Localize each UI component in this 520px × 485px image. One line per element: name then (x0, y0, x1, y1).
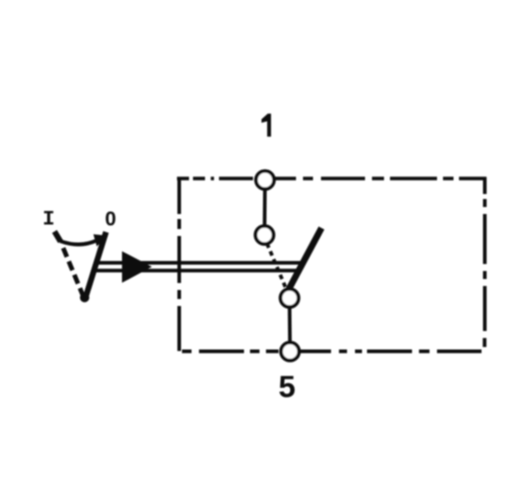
wire: terminal 1 to fixed contact (263, 180, 267, 235)
wire: movable contact pivot to terminal 5 (288, 298, 292, 352)
rocker actuator left leg solid tip (position I) (55, 232, 61, 242)
switch housing outline, right edge (483, 177, 487, 347)
rocker actuator vertex blob (80, 293, 89, 302)
toggle motion arc arrowhead (93, 234, 108, 246)
movable contact pivot circle (281, 289, 299, 307)
switch housing outline, left edge (177, 177, 181, 351)
movable contact lever arm (287, 228, 322, 294)
switch housing outline, bottom edge (182, 349, 482, 353)
actuator arrowhead pointing right (122, 251, 152, 283)
toggle motion arc from I to 0 (60, 241, 96, 245)
terminal 5 circle (281, 343, 299, 361)
rocker actuator right leg (solid, position 0) (85, 232, 106, 300)
rocker actuator left leg (dashed) (63, 248, 84, 299)
actuator linkage double line, upper (96, 261, 305, 265)
switch housing outline (dash-dot box), top edge (177, 177, 486, 181)
fixed contact circle (256, 226, 274, 244)
terminal 1 circle (256, 171, 274, 189)
svg-text:I: I (42, 209, 54, 232)
actuator linkage double line, lower (95, 269, 302, 273)
svg-text:0: 0 (105, 209, 116, 231)
dashed contact path from fixed contact toward pivot (267, 244, 288, 293)
svg-text:5: 5 (279, 370, 296, 404)
label terminal 1 (262, 114, 272, 137)
